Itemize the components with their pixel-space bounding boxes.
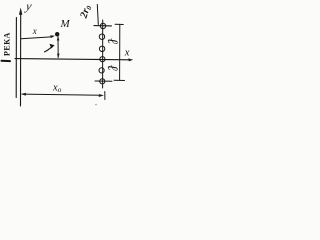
arrowhead at M <box>50 35 55 38</box>
river bank line <box>15 18 17 98</box>
well column line <box>102 20 104 88</box>
svg-text:ℓ: ℓ <box>104 38 120 44</box>
label y (ordinate, rotated) <box>50 44 55 49</box>
pitch dimension line (right) <box>119 24 121 80</box>
speck <box>95 104 97 106</box>
svg-text:x: x <box>32 26 37 36</box>
y-ordinate dimension line from M down to x-axis <box>57 37 59 58</box>
y-axis arrowhead <box>19 8 23 15</box>
x0 dimension line <box>22 94 102 95</box>
well circle 1 (top, crossed) <box>100 23 105 28</box>
top tick of pitch dimension <box>115 23 123 25</box>
2r0 diameter line through top circle <box>94 25 112 27</box>
x-offset line from axis to M <box>21 37 51 39</box>
bottom row line through bottom circle <box>95 80 112 82</box>
well circle 3 <box>99 46 104 51</box>
x0 extension tick <box>104 92 106 100</box>
well circle 5 <box>99 68 104 73</box>
bottom tick of pitch dimension <box>114 79 125 81</box>
x-axis arrowhead <box>128 58 133 61</box>
bottom arrowhead at x-axis <box>57 54 60 59</box>
x0 left arrowhead <box>21 93 26 96</box>
svg-text:ℓ: ℓ <box>104 65 120 71</box>
well circle 2 <box>99 34 104 39</box>
y-axis <box>20 12 22 106</box>
x-axis <box>15 59 130 60</box>
well circle 4 (on x-axis) <box>100 57 105 62</box>
top arrowhead at M <box>57 36 60 41</box>
point M <box>55 32 59 36</box>
svg-text:M: M <box>60 18 71 30</box>
svg-text:xo: xo <box>52 83 62 94</box>
well circle 6 (bottom, crossed) <box>100 79 105 84</box>
x0 right arrowhead <box>99 94 104 97</box>
svg-text:x: x <box>124 48 130 59</box>
water dash under РЕКА <box>2 60 11 62</box>
2r0 leader line <box>97 5 98 25</box>
svg-text:РЕКА: РЕКА <box>3 32 12 56</box>
